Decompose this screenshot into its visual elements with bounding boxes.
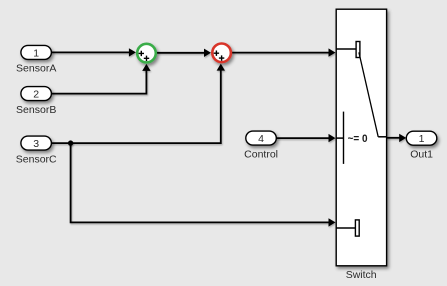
wire Control output to Switch control input (with arrowhead) <box>276 134 335 142</box>
svg-text:4: 4 <box>258 133 264 145</box>
label Control <box>244 148 278 160</box>
wire Sum2 output to Switch top data input (with arrowhead) <box>232 48 336 56</box>
Switch block body <box>336 9 386 266</box>
Sum2 plus sign (left input) <box>214 51 219 56</box>
wire SensorC branch to Switch bottom data input (with arrowhead) <box>71 143 336 227</box>
label SensorC <box>16 153 57 165</box>
Switch lever (diagonal) <box>359 52 378 136</box>
svg-text:3: 3 <box>33 138 39 150</box>
outport block 1 (Out1) <box>406 131 437 145</box>
svg-text:Control: Control <box>244 148 278 160</box>
Sum1 plus sign (bottom input) <box>144 56 149 61</box>
inport block 2 (SensorB) <box>21 87 52 101</box>
Switch top input port symbol <box>356 42 360 58</box>
sum block Sum1 (green ring) <box>137 44 156 63</box>
Sum1 plus sign (left input) <box>139 51 144 56</box>
Sum2 plus sign (bottom input) <box>219 55 224 60</box>
Switch bottom input stub wire <box>336 227 355 229</box>
svg-text:~= 0: ~= 0 <box>348 133 368 145</box>
Switch threshold marker line <box>343 112 345 164</box>
svg-text:1: 1 <box>33 47 39 59</box>
Switch threshold value label ~= 0 <box>348 133 368 145</box>
wire Switch output to Out1 (with arrowhead) <box>387 134 407 142</box>
Switch bottom input port symbol <box>355 220 359 236</box>
label Switch <box>346 269 377 281</box>
wire SensorC output to Sum2 bottom input (with arrowhead) <box>51 64 225 144</box>
wire SensorA output to Sum1 left input (with arrowhead) <box>51 48 135 56</box>
label SensorA <box>16 63 56 75</box>
wire junction on SensorC net <box>68 140 73 145</box>
svg-text:2: 2 <box>33 89 39 101</box>
svg-text:Out1: Out1 <box>410 148 433 160</box>
svg-text:SensorB: SensorB <box>16 104 56 116</box>
sum block Sum2 (red ring) <box>212 44 231 63</box>
wire SensorB output to Sum1 bottom input (with arrowhead) <box>51 64 150 94</box>
Switch output pole wire <box>378 136 386 138</box>
svg-text:SensorA: SensorA <box>16 63 56 75</box>
inport block 3 (SensorC) <box>21 136 52 150</box>
label SensorB <box>16 104 56 116</box>
svg-text:SensorC: SensorC <box>16 153 57 165</box>
Switch control input stub wire <box>336 137 343 139</box>
Switch top input stub wire <box>336 48 356 50</box>
wire Sum1 output to Sum2 left input (with arrowhead) <box>157 49 211 57</box>
svg-text:Switch: Switch <box>346 269 377 281</box>
inport block 4 (Control) <box>246 131 276 145</box>
label Out1 <box>410 148 433 160</box>
svg-text:1: 1 <box>419 133 425 145</box>
inport block 1 (SensorA) <box>21 45 52 59</box>
